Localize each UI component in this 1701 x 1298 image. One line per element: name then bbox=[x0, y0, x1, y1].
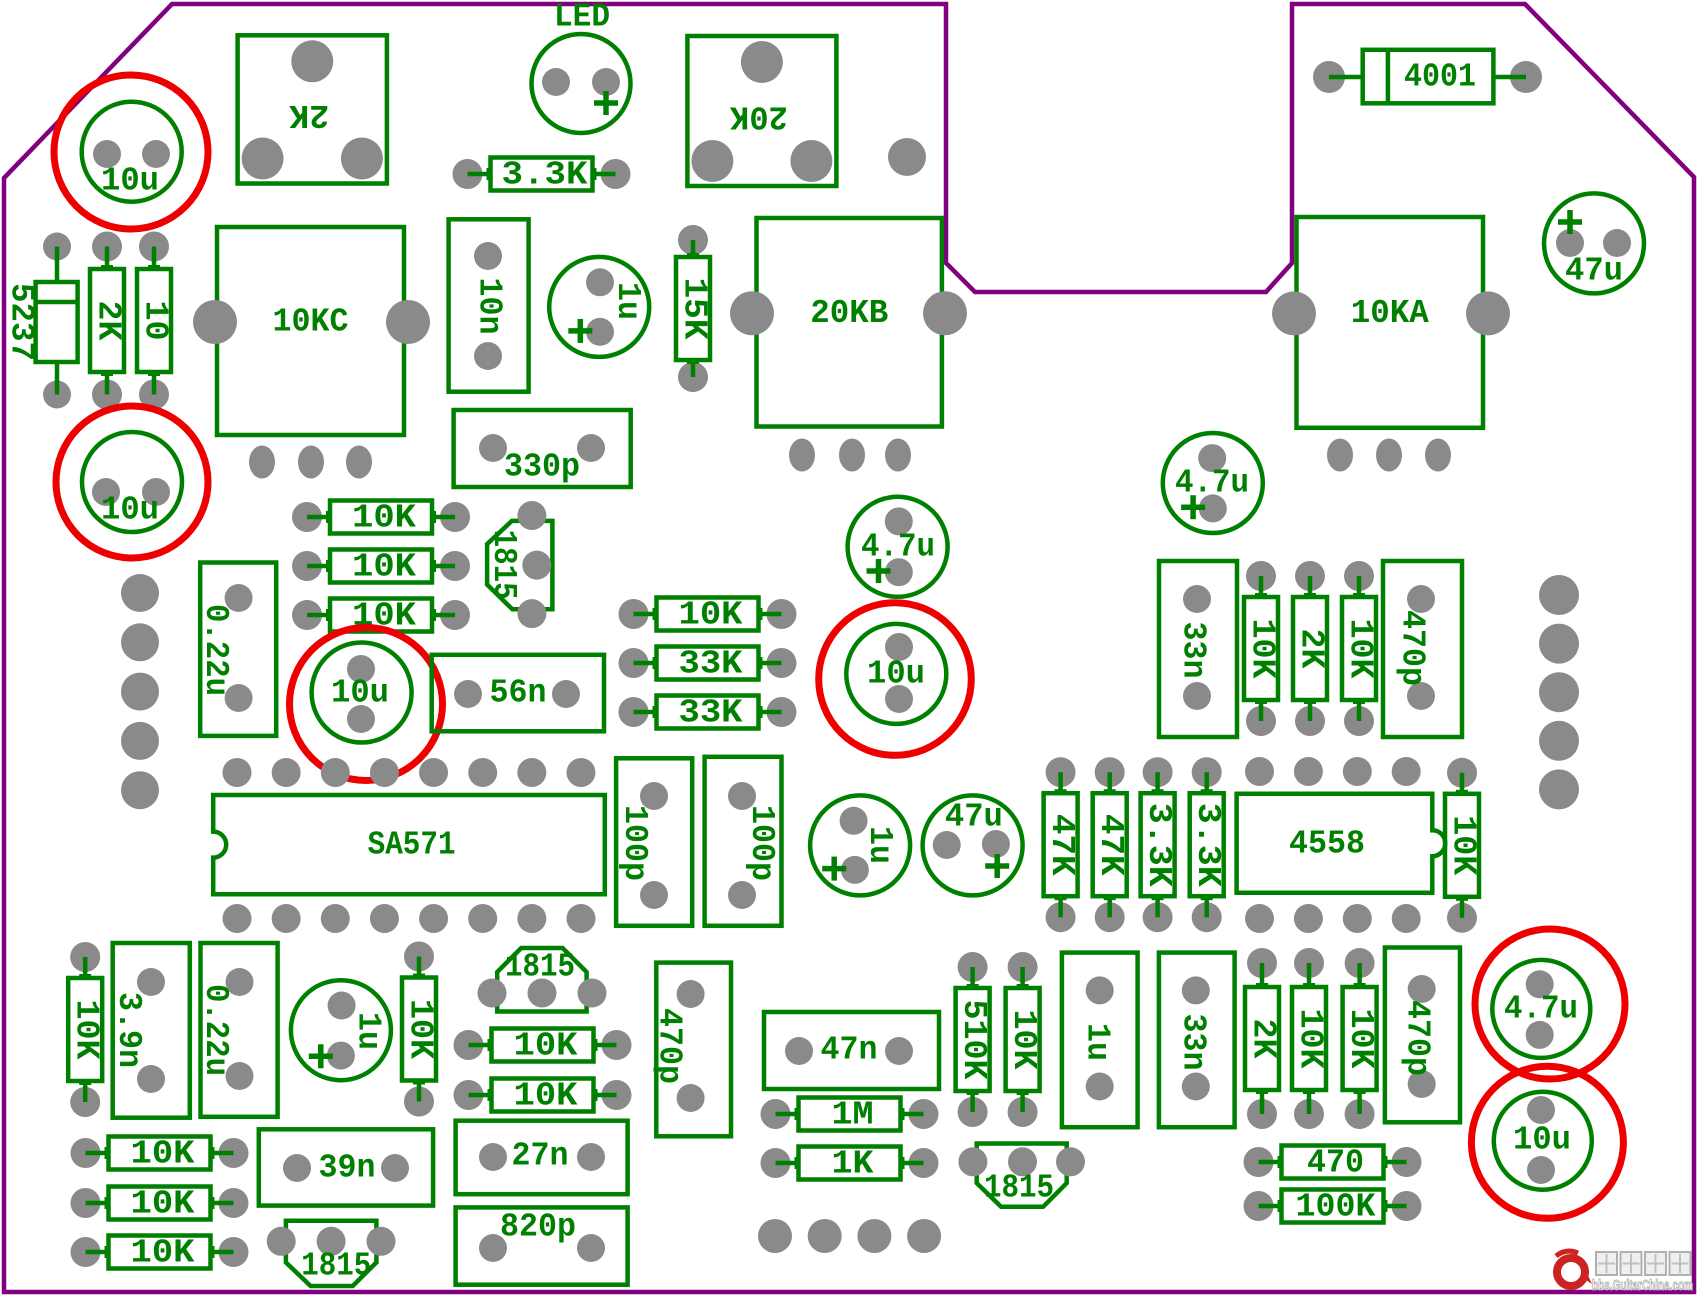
svg-text:10u: 10u bbox=[331, 675, 389, 712]
connector pads right column bbox=[1539, 575, 1579, 809]
svg-text:4558: 4558 bbox=[1289, 826, 1365, 863]
svg-text:10n: 10n bbox=[471, 278, 508, 335]
svg-text:4.7u: 4.7u bbox=[861, 529, 935, 566]
capacitor C5 56n bbox=[432, 655, 604, 732]
transistor Q3 1815 bbox=[267, 1221, 396, 1286]
svg-text:27n: 27n bbox=[512, 1138, 569, 1175]
svg-text:470: 470 bbox=[1307, 1145, 1364, 1182]
svg-text:100p: 100p bbox=[616, 805, 653, 881]
svg-text:10u: 10u bbox=[101, 492, 159, 529]
svg-text:4001: 4001 bbox=[1404, 59, 1476, 96]
diode D1 5237 bbox=[3, 233, 78, 409]
connector pads left column bbox=[121, 574, 159, 809]
capacitor C25 39n bbox=[259, 1129, 433, 1205]
svg-text:2K: 2K bbox=[289, 96, 329, 133]
resistor R17 3.3K bbox=[1189, 757, 1226, 932]
svg-text:33K: 33K bbox=[679, 646, 743, 683]
svg-text:LED: LED bbox=[554, 0, 610, 36]
capacitor C3 330p bbox=[454, 410, 631, 487]
svg-text:10K: 10K bbox=[1445, 815, 1482, 875]
capacitor C10 10u bbox=[82, 432, 182, 532]
svg-text:47K: 47K bbox=[1043, 814, 1080, 876]
capacitor C22 27n bbox=[456, 1121, 628, 1195]
ic U1 SA571 bbox=[213, 758, 605, 933]
capacitor C18 47u bbox=[923, 795, 1023, 895]
capacitor C27 47n bbox=[764, 1012, 939, 1089]
svg-text:10K: 10K bbox=[679, 597, 743, 634]
resistor R7 10K bbox=[292, 598, 470, 635]
resistor R11 10K bbox=[1244, 561, 1281, 736]
svg-text:10K: 10K bbox=[352, 500, 416, 537]
svg-text:3.9n: 3.9n bbox=[110, 992, 147, 1068]
pads bottom middle row bbox=[758, 1219, 941, 1253]
resistor R13 10K bbox=[1342, 561, 1379, 736]
highlight ring around C9 10u bbox=[54, 75, 208, 229]
svg-text:1815: 1815 bbox=[301, 1248, 371, 1285]
capacitor C23 820p bbox=[456, 1207, 628, 1284]
capacitor C15 33n bbox=[1159, 561, 1237, 737]
highlight ring around C32 10u bbox=[1471, 1066, 1623, 1218]
potentiometer VR1 2K bbox=[238, 35, 387, 183]
capacitor C12 4.7u bbox=[848, 497, 948, 597]
svg-text:bbs.GuitarChina.com: bbs.GuitarChina.com bbox=[1592, 1278, 1693, 1294]
resistor R15 47K bbox=[1092, 757, 1129, 932]
svg-text:10K: 10K bbox=[514, 1078, 578, 1115]
resistor R12 2K bbox=[1293, 561, 1330, 736]
svg-text:10K: 10K bbox=[352, 549, 416, 586]
resistor R34 100K bbox=[1244, 1189, 1422, 1226]
resistor R30 2K bbox=[1245, 948, 1282, 1129]
resistor R16 3.3K bbox=[1140, 757, 1177, 932]
svg-text:56n: 56n bbox=[490, 675, 547, 712]
svg-text:1815: 1815 bbox=[485, 530, 522, 600]
svg-text:10u: 10u bbox=[867, 656, 925, 693]
resistor R6 10K bbox=[292, 549, 470, 586]
resistor R14 47K bbox=[1043, 757, 1080, 932]
svg-text:10K: 10K bbox=[131, 1136, 195, 1173]
svg-text:10K: 10K bbox=[1342, 1009, 1379, 1069]
svg-text:2K: 2K bbox=[1293, 629, 1330, 669]
capacitor C31 4.7u bbox=[1492, 960, 1590, 1058]
resistor R29 10K bbox=[1005, 952, 1042, 1127]
highlight ring around C31 4.7u bbox=[1475, 929, 1625, 1079]
svg-text:0.22u: 0.22u bbox=[197, 984, 234, 1076]
resistor R24 10K bbox=[71, 1186, 249, 1223]
resistor R33 470 bbox=[1244, 1145, 1422, 1182]
capacitor C1 10n bbox=[449, 219, 529, 391]
capacitor C7 100p bbox=[705, 757, 782, 926]
svg-text:510K: 510K bbox=[955, 1000, 992, 1080]
svg-text:470p: 470p bbox=[1399, 1000, 1436, 1076]
transistor Q1 1815 bbox=[485, 501, 553, 628]
svg-text:10KA: 10KA bbox=[1351, 295, 1429, 332]
capacitor C21 1u bbox=[291, 980, 391, 1080]
capacitor C14 4.7u bbox=[1163, 433, 1263, 533]
resistor R26 1M bbox=[761, 1097, 939, 1134]
potentiometer VR2 20K bbox=[687, 36, 836, 186]
transistor Q2 1815 bbox=[478, 948, 607, 1012]
resistor R28 510K bbox=[955, 952, 992, 1127]
svg-text:33n: 33n bbox=[1175, 1014, 1212, 1071]
capacitor C9 10u bbox=[82, 102, 182, 202]
resistor R9 33K bbox=[619, 646, 797, 683]
resistor R19 10K bbox=[68, 942, 105, 1117]
resistor R27 1K bbox=[761, 1146, 939, 1183]
capacitor C16 470p bbox=[1383, 561, 1462, 737]
svg-text:SA571: SA571 bbox=[368, 827, 456, 864]
svg-text:10: 10 bbox=[137, 301, 174, 341]
svg-text:10K: 10K bbox=[68, 1000, 105, 1060]
potentiometer VR5 10KA bbox=[1272, 217, 1510, 472]
svg-text:10K: 10K bbox=[131, 1186, 195, 1223]
svg-text:1u: 1u bbox=[1078, 1023, 1115, 1061]
capacitor C26 470p bbox=[650, 963, 731, 1137]
ic U2 4558 bbox=[1237, 757, 1446, 933]
svg-text:33n: 33n bbox=[1175, 622, 1212, 679]
svg-text:4.7u: 4.7u bbox=[1175, 465, 1249, 502]
svg-text:15K: 15K bbox=[676, 278, 713, 340]
led LED1 bbox=[532, 0, 631, 133]
svg-text:3.3K: 3.3K bbox=[502, 157, 588, 194]
svg-text:10KC: 10KC bbox=[273, 304, 349, 341]
svg-text:470p: 470p bbox=[650, 1008, 687, 1084]
resistor R18 10K bbox=[1445, 758, 1482, 933]
capacitor C28 1u bbox=[1062, 953, 1138, 1128]
svg-text:1K: 1K bbox=[832, 1146, 874, 1183]
svg-text:33K: 33K bbox=[679, 695, 743, 732]
svg-text:10u: 10u bbox=[101, 163, 159, 200]
svg-text:39n: 39n bbox=[319, 1150, 376, 1187]
resistor R8 10K bbox=[619, 597, 797, 634]
resistor R10 33K bbox=[619, 695, 797, 732]
svg-text:2K: 2K bbox=[1245, 1019, 1282, 1059]
resistor R31 10K bbox=[1292, 948, 1329, 1129]
capacitor C32 10u bbox=[1494, 1092, 1592, 1190]
capacitor C2 1u bbox=[549, 257, 649, 357]
transistor Q4 1815 bbox=[958, 1144, 1085, 1207]
capacitor C19 3.9n bbox=[110, 943, 190, 1118]
capacitor C11 10u bbox=[312, 643, 412, 743]
svg-text:1u: 1u bbox=[861, 826, 898, 864]
highlight ring around C13 10u bbox=[819, 603, 972, 756]
svg-text:1u: 1u bbox=[350, 1012, 387, 1050]
resistor R25 10K bbox=[71, 1235, 249, 1272]
resistor R3 10 bbox=[137, 232, 174, 410]
pad near notch bbox=[888, 138, 926, 176]
svg-text:47n: 47n bbox=[821, 1032, 878, 1069]
svg-text:10K: 10K bbox=[1244, 619, 1281, 679]
svg-text:10K: 10K bbox=[131, 1235, 195, 1272]
svg-text:3.3K: 3.3K bbox=[1140, 803, 1177, 887]
svg-text:10K: 10K bbox=[1292, 1009, 1329, 1069]
svg-text:1u: 1u bbox=[609, 282, 646, 320]
potentiometer VR4 20KB bbox=[730, 218, 967, 472]
svg-text:100p: 100p bbox=[743, 805, 780, 881]
svg-text:820p: 820p bbox=[500, 1209, 576, 1246]
svg-text:47u: 47u bbox=[945, 799, 1003, 836]
watermark text bbox=[1592, 1252, 1693, 1294]
svg-text:47K: 47K bbox=[1092, 814, 1129, 876]
capacitor C4 0.22u bbox=[197, 563, 276, 736]
svg-text:1815: 1815 bbox=[984, 1170, 1054, 1207]
highlight ring around C10 10u bbox=[56, 406, 208, 558]
capacitor C17 1u bbox=[810, 795, 910, 895]
svg-text:4.7u: 4.7u bbox=[1504, 991, 1578, 1028]
svg-text:10K: 10K bbox=[1005, 1010, 1042, 1070]
svg-text:47u: 47u bbox=[1565, 253, 1623, 290]
svg-text:20K: 20K bbox=[730, 98, 788, 135]
capacitor C6 100p bbox=[616, 758, 692, 926]
capacitor C29 33n bbox=[1159, 953, 1235, 1128]
svg-text:3.3K: 3.3K bbox=[1189, 803, 1226, 887]
svg-text:1815: 1815 bbox=[505, 949, 575, 986]
resistor R5 10K bbox=[292, 500, 470, 537]
capacitor C30 470p bbox=[1385, 948, 1460, 1123]
resistor R32 10K bbox=[1342, 948, 1379, 1129]
watermark logo bbox=[1556, 1251, 1592, 1286]
resistor R2 2K bbox=[90, 232, 127, 410]
svg-text:5237: 5237 bbox=[3, 283, 40, 361]
capacitor C24 47u bbox=[1544, 193, 1644, 293]
diode D2 4001 bbox=[1313, 50, 1542, 104]
svg-text:1M: 1M bbox=[832, 1097, 874, 1134]
highlight ring around C11 10u bbox=[290, 628, 443, 781]
svg-text:10K: 10K bbox=[402, 999, 439, 1059]
resistor R21 10K bbox=[454, 1028, 632, 1065]
potentiometer VR3 10KC bbox=[193, 227, 430, 479]
svg-text:10K: 10K bbox=[514, 1028, 578, 1065]
capacitor C20 0.22u bbox=[197, 943, 278, 1117]
svg-text:10u: 10u bbox=[1513, 1122, 1571, 1159]
svg-text:100K: 100K bbox=[1296, 1189, 1376, 1226]
svg-text:330p: 330p bbox=[504, 449, 580, 486]
resistor R20 10K bbox=[402, 942, 439, 1117]
svg-text:0.22u: 0.22u bbox=[197, 604, 234, 696]
capacitor C13 10u bbox=[846, 624, 946, 724]
resistor R4 15K bbox=[676, 225, 713, 392]
svg-text:10K: 10K bbox=[1342, 619, 1379, 679]
svg-text:2K: 2K bbox=[90, 301, 127, 341]
svg-text:470p: 470p bbox=[1394, 610, 1431, 686]
resistor R22 10K bbox=[454, 1078, 632, 1115]
resistor R23 10K bbox=[71, 1136, 249, 1173]
svg-text:20KB: 20KB bbox=[810, 295, 888, 332]
resistor R1 3.3K bbox=[453, 157, 631, 194]
